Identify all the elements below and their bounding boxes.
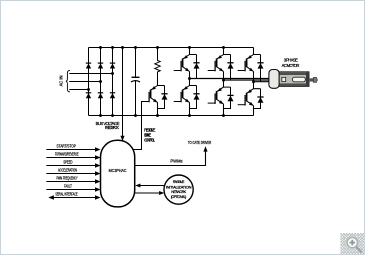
capacitor C1 DC bus (131, 46, 140, 117)
svg-text:AC MOTOR: AC MOTOR (282, 63, 300, 68)
transistor Q7 (IGBT) (149, 79, 164, 116)
diode D4 rectifier bottom (86, 93, 91, 98)
wire gate stub Q6 (238, 104, 245, 106)
svg-text:FORWARD/REVERSE: FORWARD/REVERSE (55, 151, 79, 156)
diode D7 antiparallel with Q1 (193, 55, 199, 79)
diode D10 antiparallel with Q4 (190, 86, 200, 109)
wire bus voltage feedback (120, 46, 124, 141)
wire chip to init network (135, 191, 165, 195)
transistor Q1 (IGBT) (181, 48, 196, 79)
svg-text:SERIAL INTERFACE: SERIAL INTERFACE (55, 191, 77, 196)
svg-text:ACCELERATION: ACCELERATION (58, 167, 77, 172)
wire top DC bus (89, 47, 254, 49)
svg-text:FAULT: FAULT (64, 183, 72, 188)
diode D3 rectifier top (110, 63, 115, 68)
wire init network to chip (135, 184, 164, 188)
wire rectifier leg 1 (88, 48, 90, 116)
transistor Q2 (IGBT) (215, 48, 230, 81)
wire input START/STOP (46, 143, 100, 151)
wire gate stub Q1 (174, 70, 181, 72)
wire input PWM FREQUENCY (46, 175, 100, 183)
wire AC phase 1 (69, 73, 112, 75)
wire AC phase 3 (69, 89, 88, 91)
wire AC phase 2 (69, 81, 100, 83)
wire motor phase A (190, 78, 270, 80)
wire gate stub Q3 (238, 70, 245, 72)
diode D8 antiparallel with Q2 (227, 55, 233, 81)
label TO GATE DRIVER (188, 140, 211, 145)
node phase 3 junction (252, 80, 255, 83)
wire PWMs to gate driver (135, 146, 208, 165)
transistor Q4 (IGBT) (181, 79, 196, 116)
label BUS VOLTAGE FEEDBACK (96, 121, 120, 130)
wire gate stub Q4 (174, 101, 181, 103)
transistor Q3 (IGBT) (245, 48, 260, 82)
motor M1 3-phase AC motor (269, 70, 318, 89)
wire gate stub Q5 (208, 102, 215, 104)
label PWMs (170, 158, 183, 164)
transistor Q5 (IGBT) (215, 80, 230, 115)
diode D6 rectifier bottom (110, 93, 115, 98)
wire gate stub Q2 (208, 70, 215, 72)
wire input FAULT (46, 183, 100, 191)
diode D1 rectifier top (86, 63, 91, 68)
svg-text:START/STOP: START/STOP (57, 143, 76, 148)
node phase 1 junction (188, 77, 191, 80)
svg-text:PASSIVE: PASSIVE (173, 179, 185, 184)
svg-text:(OPTIONAL): (OPTIONAL) (171, 194, 187, 199)
label RESISTIVE BRAKE CONTROL (144, 127, 156, 142)
node AC IN label (59, 76, 64, 87)
wire motor phase B (224, 79, 270, 81)
diode D13 antiparallel with Q7 (158, 86, 168, 109)
diode D5 rectifier bottom (98, 93, 103, 98)
wire input FORWARD/REVERSE (46, 151, 100, 159)
svg-text:CONTROL: CONTROL (144, 137, 156, 142)
wire input SERIAL INTERFACE (48, 191, 100, 199)
wire resistive brake control (133, 102, 149, 150)
wire input ACCELERATION (46, 167, 100, 175)
wire input SPEED (46, 159, 100, 167)
node passive initialization network (164, 175, 193, 204)
svg-text:MC3PHAC: MC3PHAC (109, 168, 127, 173)
svg-text:FEEDBACK: FEEDBACK (105, 125, 119, 130)
resistor R1 brake (155, 46, 160, 78)
diode D11 antiparallel with Q5 (224, 87, 234, 108)
svg-text:AC IN: AC IN (59, 76, 64, 87)
decorative zoom icon (318, 233, 365, 254)
diode D9 antiparallel with Q3 (257, 55, 263, 82)
wire rectifier leg 2 (100, 48, 102, 116)
IC U1 MC3PHAC motor controller (101, 140, 135, 207)
wire rectifier leg 3 (112, 48, 114, 116)
wire motor phase C (254, 81, 270, 83)
wire bottom DC bus (89, 115, 254, 117)
label 3 PHASE AC MOTOR (282, 58, 300, 68)
svg-text:PWM FREQUENCY: PWM FREQUENCY (56, 175, 77, 180)
svg-text:TO GATE DRIVER: TO GATE DRIVER (188, 140, 211, 145)
diode D12 antiparallel with Q6 (254, 89, 264, 109)
node phase 2 junction (222, 79, 225, 82)
transistor Q6 (IGBT) (245, 82, 260, 116)
svg-text:PWMs: PWMs (170, 158, 183, 164)
brace AC IN (66, 70, 70, 92)
diode D2 rectifier top (98, 63, 103, 68)
svg-text:SPEED: SPEED (63, 159, 72, 164)
